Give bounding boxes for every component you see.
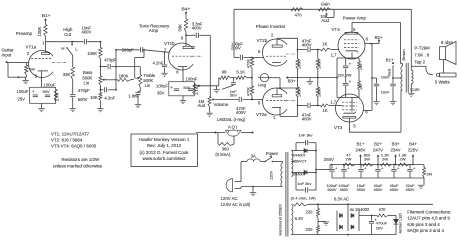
resistor 360 set	[217, 133, 219, 145]
svg-text:(0.4 ohm, 1W): (0.4 ohm, 1W)	[291, 196, 317, 201]
resistor 100K column right lower	[317, 77, 319, 79]
svg-text:50V: 50V	[230, 93, 237, 98]
svg-text:400V: 400V	[82, 29, 92, 34]
svg-text:2.7K: 2.7K	[54, 92, 59, 101]
svg-text:7.6K : 8: 7.6K : 8	[414, 52, 430, 57]
svg-text:(c) 2012 G. Forrest Cook: (c) 2012 G. Forrest Cook	[139, 150, 189, 155]
svg-text:Cut: Cut	[64, 32, 72, 37]
svg-text:400V: 400V	[192, 26, 202, 31]
tone stack bass branch	[99, 59, 101, 76]
svg-text:12.6V AC in (alt): 12.6V AC in (alt)	[221, 202, 251, 207]
title box	[131, 134, 198, 167]
svg-text:VT1: 12AU7/12AT7: VT1: 12AU7/12AT7	[51, 131, 90, 136]
jack J2 output plug	[426, 70, 433, 75]
svg-text:450V: 450V	[389, 188, 398, 192]
svg-text:12AU7 pins 4,5 and 9: 12AU7 pins 4,5 and 9	[407, 216, 450, 221]
ground AC	[252, 187, 254, 193]
filter capacitors	[332, 177, 424, 179]
svg-text:470pF: 470pF	[78, 88, 90, 93]
svg-text:100K: 100K	[318, 60, 322, 69]
ground volume pot	[206, 112, 213, 114]
svg-text:A O I: A O I	[228, 125, 237, 130]
svg-text:470K: 470K	[246, 87, 250, 96]
svg-text:100nF: 100nF	[186, 77, 198, 82]
resistor 2.7K cathode VT1a	[54, 89, 57, 101]
svg-text:VT1b: VT1b	[164, 41, 175, 46]
svg-text:4x 1N4002: 4x 1N4002	[350, 207, 370, 212]
svg-text:150: 150	[359, 84, 363, 90]
wire AC neutral	[240, 187, 243, 189]
wire left column cathode box	[336, 58, 338, 97]
wire secondary bottom to Com	[410, 90, 412, 93]
ground VT1a cathode	[38, 108, 45, 110]
svg-text:225V: 225V	[408, 147, 418, 152]
wire to volume pot	[209, 35, 211, 96]
svg-text:100uF: 100uF	[156, 83, 168, 88]
ground Com	[408, 92, 415, 94]
svg-text:100uF: 100uF	[44, 82, 56, 87]
wire speaker to jack	[443, 60, 445, 73]
svg-text:1K: 1K	[322, 41, 327, 46]
resistor 2.7K cathode VT1b	[193, 84, 196, 95]
transformer filament winding 6.3V	[291, 204, 293, 234]
treble wiper jog	[143, 50, 145, 58]
svg-text:200V: 200V	[231, 46, 241, 51]
svg-text:2W: 2W	[382, 156, 388, 161]
svg-text:Input: Input	[2, 52, 13, 57]
transformer T1 primary	[282, 162, 284, 164]
svg-text:Bass: Bass	[83, 70, 92, 75]
svg-text:Volume: Volume	[213, 102, 228, 107]
svg-text:220, 2W: 220, 2W	[338, 73, 352, 77]
svg-text:2.7K: 2.7K	[194, 86, 199, 95]
svg-text:B3+: B3+	[392, 142, 400, 147]
wire VT2b plate	[276, 38, 278, 45]
svg-text:120V AC: 120V AC	[221, 196, 238, 201]
svg-text:470: 470	[295, 12, 303, 17]
svg-text:220: 220	[306, 227, 314, 232]
svg-text:56K: 56K	[177, 24, 182, 32]
svg-text:16V: 16V	[376, 225, 383, 230]
svg-text:220: 220	[306, 210, 314, 215]
resistor 2M bleeder	[423, 168, 426, 178]
svg-text:1nF 3kv: 1nF 3kv	[297, 181, 311, 186]
svg-text:50V: 50V	[183, 85, 190, 90]
svg-text:Phase Inverter: Phase Inverter	[256, 24, 286, 29]
svg-text:B3+: B3+	[288, 79, 296, 84]
svg-text:VT4: VT4	[331, 27, 340, 32]
svg-text:25V: 25V	[18, 97, 26, 102]
ground at input jack	[25, 77, 27, 80]
svg-text:470: 470	[379, 207, 387, 212]
svg-text:Aud: Aud	[321, 18, 329, 23]
svg-text:150: 150	[359, 64, 363, 70]
svg-text:400V: 400V	[236, 110, 246, 115]
cathode network VT1b box	[169, 82, 195, 96]
wire VT2a plate up	[276, 88, 278, 95]
svg-text:B1+: B1+	[386, 58, 394, 63]
resistor 33K	[71, 67, 74, 80]
svg-text:35V: 35V	[157, 91, 165, 96]
AC plug 120V	[226, 179, 232, 192]
svg-text:1,7: 1,7	[331, 53, 338, 58]
svg-text:500V: 500V	[78, 97, 88, 102]
wire LM334 left	[196, 132, 225, 134]
svg-text:B2+: B2+	[374, 142, 382, 147]
cathode box bottom rail	[337, 96, 359, 98]
svg-text:(0.5mA): (0.5mA)	[215, 152, 231, 157]
svg-text:450V: 450V	[405, 188, 414, 192]
svg-text:10nF: 10nF	[381, 91, 390, 95]
resistor 150 cathode upper	[358, 61, 361, 70]
top feedback rail	[234, 8, 412, 10]
svg-text:www.solorb.com/elect: www.solorb.com/elect	[143, 156, 187, 161]
svg-text:6J6 pins 3 and 4: 6J6 pins 3 and 4	[407, 222, 440, 227]
svg-text:1nF 3kv: 1nF 3kv	[298, 133, 312, 138]
svg-text:H: H	[61, 46, 64, 51]
svg-text:3W: 3W	[364, 156, 370, 161]
cathode network VT1a box	[30, 87, 56, 103]
wire VT3 plate to OT bottom	[348, 118, 350, 132]
svg-text:6AQ5 pins 3 and 4: 6AQ5 pins 3 and 4	[407, 228, 444, 233]
wire LM334 right	[241, 132, 253, 134]
svg-text:100K: 100K	[87, 51, 97, 56]
svg-text:120V: 120V	[269, 170, 274, 180]
wire VT4 screen to B2+	[365, 43, 379, 45]
svg-text:Com: Com	[410, 87, 420, 92]
svg-text:180K: 180K	[119, 73, 129, 78]
wire tone bypass column	[115, 50, 117, 90]
svg-text:Tap 2: Tap 2	[414, 59, 425, 64]
capacitor screen bypass to ground	[371, 77, 373, 79]
svg-text:VT3-VT4: 6AQ5 / 6005: VT3-VT4: 6AQ5 / 6005	[51, 143, 97, 148]
capacitor 100uF cathode 1	[345, 58, 347, 65]
svg-text:400V: 400V	[302, 42, 312, 47]
wire VT2a cathode to tail	[279, 107, 281, 116]
ground stub feedback	[216, 86, 218, 90]
svg-text:100K: 100K	[297, 60, 301, 69]
svg-text:450V: 450V	[373, 188, 382, 192]
wire cathode to VT3	[351, 97, 353, 111]
svg-text:Amp: Amp	[149, 28, 159, 33]
resistor 100K column right upper	[317, 50, 319, 59]
wire input tip to grid	[17, 62, 29, 64]
output transformer T2	[401, 66, 403, 90]
shared envelope dash VT1a	[52, 61, 66, 63]
svg-text:VT2b: VT2b	[257, 38, 268, 43]
svg-text:3A: 3A	[251, 154, 256, 159]
svg-text:Howlin' Monkey Version 1: Howlin' Monkey Version 1	[139, 137, 190, 142]
capacitor 100uF cathode 2	[343, 82, 349, 84]
resistor 56K plate load VT1b	[184, 19, 187, 32]
svg-text:B1+: B1+	[42, 13, 51, 18]
jack J1 guitar input	[6, 62, 18, 64]
filament bottom rail	[291, 234, 396, 236]
svg-text:1K: 1K	[323, 108, 328, 113]
wire VT3 screen	[363, 110, 372, 112]
wire secondary to output jack contact	[411, 65, 426, 67]
svg-text:B4+: B4+	[409, 142, 417, 147]
svg-text:2M: 2M	[426, 171, 432, 176]
transformer T1 core	[285, 152, 287, 237]
svg-text:Filament Connections:: Filament Connections:	[407, 210, 451, 215]
svg-text:10K: 10K	[90, 95, 98, 100]
label B1+ center tap Red	[393, 77, 403, 79]
B+ rail	[330, 164, 424, 166]
LED amber	[388, 215, 396, 217]
wire VT4 plate to OT	[351, 22, 353, 32]
resistor 100K column left lower	[297, 77, 299, 79]
svg-text:360: 360	[222, 147, 230, 152]
svg-text:VT2: 6J6 / 5964: VT2: 6J6 / 5964	[51, 137, 83, 142]
svg-text:Power: Power	[266, 151, 279, 156]
svg-text:B1+: B1+	[357, 142, 365, 147]
svg-text:380VCT: 380VCT	[293, 159, 308, 163]
svg-text:250V: 250V	[324, 157, 334, 162]
wire rectifier output to rail	[315, 169, 317, 171]
svg-text:1N4007: 1N4007	[292, 153, 306, 157]
svg-text:600V: 600V	[327, 188, 336, 192]
feedback wire from cathode	[194, 85, 219, 87]
svg-text:100K: 100K	[37, 26, 42, 36]
svg-text:Preamp: Preamp	[16, 31, 33, 36]
screen rail down	[371, 44, 373, 111]
ground VT1b cathode	[180, 100, 187, 102]
svg-text:100K: 100K	[318, 88, 322, 97]
ground treble	[135, 104, 142, 106]
svg-text:100uF: 100uF	[17, 89, 29, 94]
svg-text:P-T29M: P-T29M	[414, 45, 430, 50]
svg-text:Lin: Lin	[145, 83, 151, 88]
wire VT4 cathode	[351, 52, 353, 58]
svg-text:100K: 100K	[297, 88, 301, 97]
ground high-cut	[69, 108, 76, 110]
svg-text:5.1K: 5.1K	[236, 70, 245, 75]
capacitor B1+ bypass to ground	[392, 78, 394, 83]
svg-text:Lin: Lin	[84, 81, 90, 86]
current regulator symbol I-reg	[260, 74, 268, 82]
svg-text:B2+: B2+	[375, 35, 383, 40]
ground tone stack left	[97, 108, 104, 110]
svg-text:Brown: Brown	[401, 49, 406, 60]
svg-text:68: 68	[222, 70, 227, 75]
coupling node VT2b	[297, 49, 299, 51]
svg-text:8 ohm: 8 ohm	[441, 40, 453, 45]
wire NFB from secondary	[410, 9, 412, 66]
resistor 100K plate load VT1a	[44, 25, 47, 37]
svg-text:450V: 450V	[339, 188, 348, 192]
svg-text:Amber LED: Amber LED	[398, 213, 403, 234]
svg-text:Red: Red	[387, 69, 391, 76]
wire DC out	[359, 215, 377, 217]
resistor 470K upper divider	[251, 57, 253, 60]
ground hum balance	[317, 218, 319, 222]
svg-text:Gain: Gain	[321, 1, 331, 6]
resistor 150 cathode lower	[358, 81, 361, 90]
wire VT1a plate rail	[46, 41, 101, 43]
svg-text:470K: 470K	[246, 59, 250, 68]
svg-text:unless marked otherwise: unless marked otherwise	[53, 163, 103, 168]
svg-text:2W: 2W	[400, 156, 406, 161]
svg-text:Hammond 256EX: Hammond 256EX	[278, 204, 283, 236]
shared envelope dash VT1b	[192, 55, 202, 57]
svg-text:6.3V AC: 6.3V AC	[334, 196, 349, 201]
resistor 6.8M grid leak	[25, 63, 27, 65]
svg-text:2W: 2W	[346, 156, 352, 161]
svg-text:5 Watts: 5 Watts	[435, 79, 451, 84]
ground bleeder	[418, 184, 425, 186]
svg-text:400V: 400V	[302, 117, 312, 122]
svg-text:1,7: 1,7	[330, 99, 337, 104]
svg-text:33K: 33K	[63, 72, 71, 77]
svg-text:Rev: July 1, 2012: Rev: July 1, 2012	[147, 143, 182, 148]
svg-text:VT1a: VT1a	[26, 45, 37, 50]
svg-text:500K: 500K	[82, 75, 92, 80]
svg-text:LM334L (I-reg): LM334L (I-reg)	[217, 117, 246, 122]
svg-text:I-reg: I-reg	[258, 83, 267, 88]
junction plate rail	[71, 41, 73, 43]
svg-text:50V: 50V	[43, 89, 50, 94]
svg-text:470pF: 470pF	[104, 58, 116, 63]
svg-text:450V: 450V	[356, 188, 365, 192]
svg-text:Aud: Aud	[198, 103, 206, 108]
transformer HV secondary 380VCT	[291, 151, 293, 177]
resistor 100K column left upper	[297, 50, 299, 59]
wire plate VT1a node	[45, 37, 47, 42]
resistor 470K lower divider	[251, 77, 253, 79]
svg-text:+: +	[32, 89, 35, 94]
wire AC hot	[240, 181, 243, 183]
svg-text:Resistors are 1/2W: Resistors are 1/2W	[62, 157, 101, 162]
wire wiper to phase inverter	[216, 98, 238, 100]
ground mid rail	[309, 78, 311, 82]
junction sleeve	[18, 76, 20, 78]
svg-text:Power Amp: Power Amp	[343, 16, 367, 21]
svg-text:VT3: VT3	[334, 125, 343, 130]
svg-text:VT2a: VT2a	[256, 112, 267, 117]
svg-text:4.2nF: 4.2nF	[104, 95, 115, 100]
svg-text:6.3V: 6.3V	[295, 216, 304, 221]
svg-text:+: +	[170, 85, 173, 90]
